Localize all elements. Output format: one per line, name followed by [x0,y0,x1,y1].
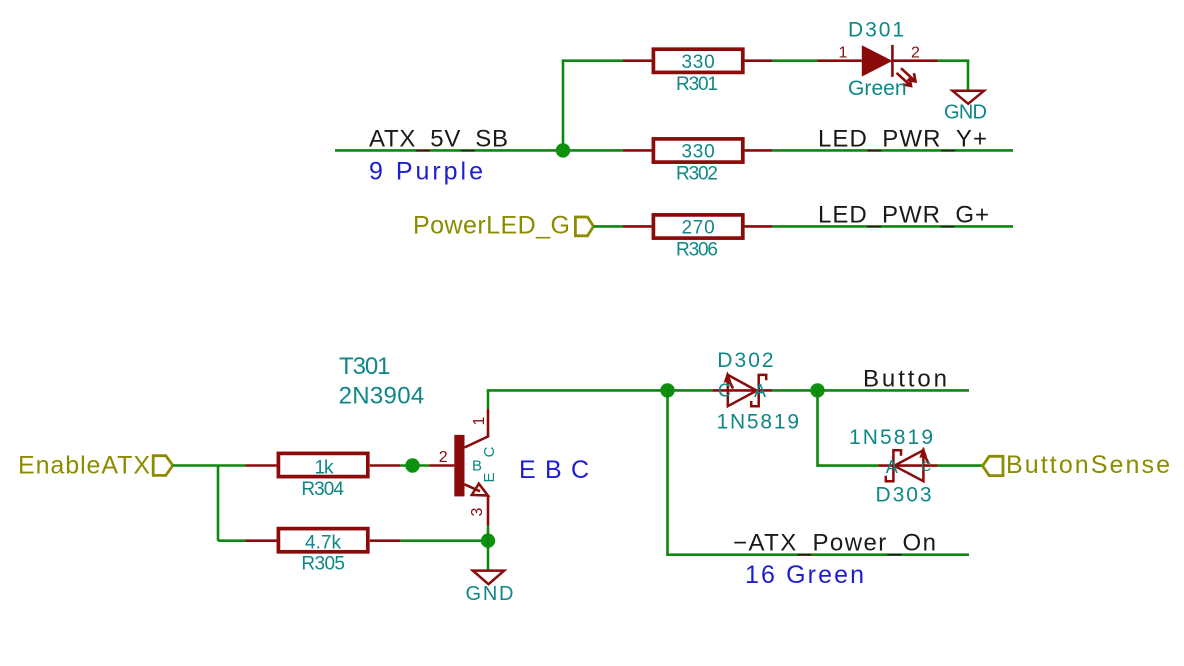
svg-text:R304: R304 [301,479,344,500]
svg-text:C: C [718,381,731,401]
hierarchical label ButtonSense [983,451,1170,479]
svg-text:A: A [754,381,766,401]
svg-text:D302: D302 [717,349,773,372]
junction at base [405,458,419,472]
svg-text:R301: R301 [676,74,718,95]
wire D302 to Button junction [772,389,818,392]
svg-text:9 Purple: 9 Purple [369,158,483,186]
resistor R306 [623,215,772,238]
junction at ATX_5V_SB [556,143,570,157]
svg-text:R306: R306 [676,240,718,261]
svg-text:EnableATX: EnableATX [18,452,150,480]
svg-text:B: B [472,458,482,475]
wire Button [818,389,970,392]
svg-text:16 Green: 16 Green [745,561,864,589]
wire branch vertical [217,466,220,541]
wire ATX_5V_SB row [335,149,623,152]
svg-text:E B C: E B C [519,456,589,484]
junction at Button [810,383,824,397]
wire from D301 to GND corner [938,61,969,91]
svg-text:−ATX_Power_On: −ATX_Power_On [733,530,936,557]
wire vertical from junction to R301 row [562,61,565,151]
svg-text:D301: D301 [848,19,904,42]
svg-text:D303: D303 [876,484,932,507]
svg-text:A: A [886,457,898,477]
svg-text:1k: 1k [315,458,335,479]
svg-text:2: 2 [439,449,448,466]
diode D303 [878,447,937,482]
transistor Q T301 [429,409,489,526]
svg-text:GND: GND [944,102,987,124]
wire LED_PWR_Y+ [772,149,1013,152]
wire R305 to emitter junction [400,539,488,542]
junction at emitter [481,534,495,548]
wire branch to R304 [218,464,246,467]
svg-text:4.7k: 4.7k [305,532,342,553]
svg-text:R302: R302 [676,164,718,185]
svg-text:3: 3 [469,507,486,516]
resistor R302 [623,139,772,162]
wire junction down to ATX_Power_On row [668,390,970,554]
wire junction down to D303 row [818,390,879,465]
svg-text:PowerLED_G: PowerLED_G [413,211,570,239]
junction at collector net [660,383,674,397]
wire collector vertical [487,390,490,409]
svg-text:LED_PWR_Y+: LED_PWR_Y+ [818,126,987,153]
wire collector to junction [487,389,668,392]
svg-text:Green: Green [848,77,907,100]
wire PowerLED_G to R306 [594,225,624,228]
wire between R301 and D301 [772,59,817,62]
svg-text:330: 330 [682,142,715,163]
svg-text:C: C [921,458,931,474]
hierarchical label PowerLED_G [413,211,594,239]
svg-text:C: C [481,446,498,457]
wire LED_PWR_G+ [772,225,1013,228]
wire emitter to GND [487,526,490,571]
wire EnableATX to branch [173,464,218,467]
hierarchical label EnableATX [18,452,173,480]
wire junction to D302 [668,389,713,392]
svg-text:ButtonSense: ButtonSense [1006,451,1170,479]
svg-text:E: E [481,472,498,482]
ground GND top [944,91,987,124]
wire D303 to ButtonSense [938,464,983,467]
ground GND bottom [466,571,514,605]
svg-text:2N3904: 2N3904 [339,383,425,410]
svg-text:LED_PWR_G+: LED_PWR_G+ [818,202,989,229]
svg-text:1: 1 [839,45,848,62]
svg-text:270: 270 [682,218,715,239]
svg-text:ATX_5V_SB: ATX_5V_SB [369,126,508,153]
svg-text:T301: T301 [339,353,391,380]
wire branch to R305 [218,539,246,542]
svg-text:GND: GND [466,583,514,605]
svg-text:330: 330 [682,52,715,73]
wire R301 row left [562,59,623,62]
svg-text:2: 2 [911,45,920,62]
diode D302 [713,371,772,406]
resistor R304 [246,453,401,476]
LED D301 [817,45,937,86]
svg-text:1: 1 [471,416,488,425]
resistor R305 [246,529,401,552]
svg-text:R305: R305 [301,554,345,575]
wire R304 to base junction [400,464,429,467]
resistor R301 [623,49,772,72]
